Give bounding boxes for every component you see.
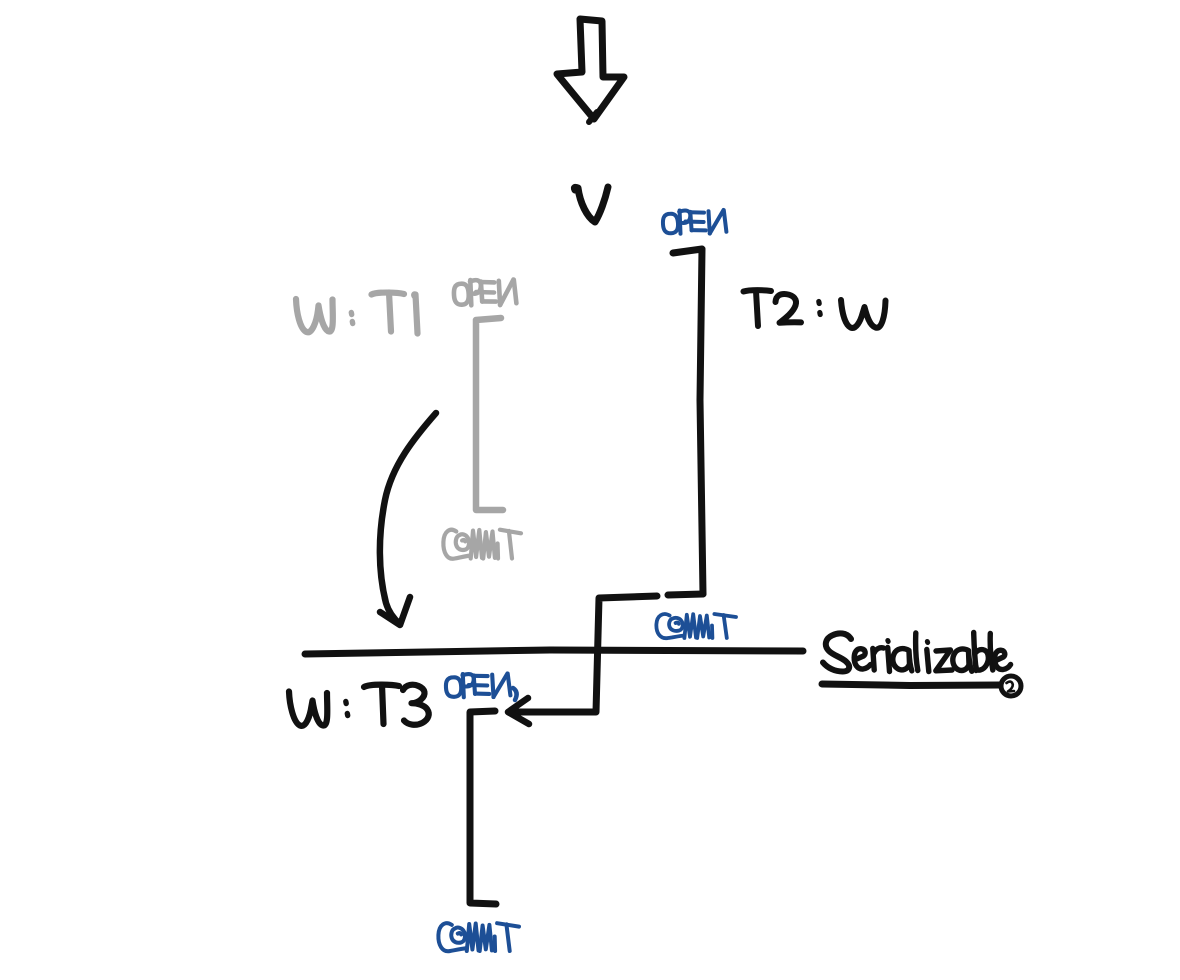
underline Serializable (822, 684, 1000, 686)
label Serializable (823, 633, 1011, 672)
label OPEN (T2) (663, 210, 726, 234)
label T2 : w (744, 290, 886, 328)
label W : TI (gray, aborted T1) (296, 293, 418, 334)
label COMMIT (T2) (656, 614, 736, 638)
wire T3 timeline (470, 711, 496, 904)
label COMMIT (T1 gray) (443, 530, 521, 559)
wire T2 commit jog (668, 594, 703, 595)
serializable threshold line (305, 650, 803, 654)
wire T1 timeline (gray) (476, 318, 503, 510)
wire T2 timeline (673, 249, 703, 594)
circled 2 mark (1001, 676, 1021, 696)
label W : T3 (289, 685, 429, 726)
node V (574, 187, 608, 222)
big hollow down arrow (557, 19, 624, 119)
curved arrow T1 to below line (380, 413, 436, 624)
label COMMIT (T3) (438, 923, 519, 951)
label OPEN (T1 gray) (454, 280, 516, 306)
label OPEN (T3) (446, 674, 517, 701)
